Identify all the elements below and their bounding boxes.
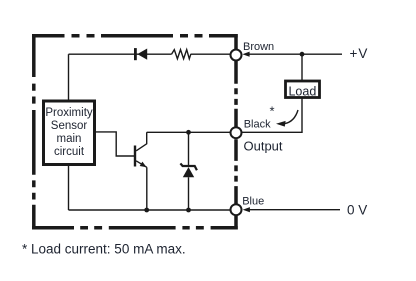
junction dot (zener top) <box>186 130 191 135</box>
wire left riser (box bottom to bottom rail) <box>68 165 70 210</box>
wire load bottom to black terminal <box>242 99 302 133</box>
svg-text:main: main <box>57 133 82 145</box>
wire emitter drop <box>146 167 148 210</box>
transistor Q1 <box>134 132 147 167</box>
svg-text:0 V: 0 V <box>347 202 367 217</box>
wire collector rail <box>147 131 231 133</box>
svg-text:Proximity: Proximity <box>45 107 93 119</box>
diode D1 (reverse polarity protection) <box>134 48 147 60</box>
load box <box>286 81 320 98</box>
enclosure dashed border top <box>32 34 238 38</box>
proximity sensor main circuit box U1 <box>44 101 95 165</box>
svg-text:Load: Load <box>288 84 316 98</box>
node Blue terminal <box>231 204 242 215</box>
curved arrow (load current into output) <box>276 110 298 127</box>
svg-text:+V: +V <box>350 46 369 61</box>
svg-text:* Load current: 50 mA max.: * Load current: 50 mA max. <box>22 242 186 257</box>
svg-text:Blue: Blue <box>242 196 264 208</box>
svg-text:*: * <box>270 104 275 119</box>
enclosure dashed border left <box>32 34 36 230</box>
enclosure dashed border bottom <box>32 226 238 230</box>
junction dot (zener / bottom rail) <box>186 208 191 213</box>
wire load top drop <box>301 54 303 80</box>
wire 0V line with arrowhead <box>249 209 340 211</box>
svg-text:circuit: circuit <box>54 146 85 158</box>
junction dot (emitter / bottom rail) <box>144 208 149 213</box>
svg-text:Brown: Brown <box>243 41 274 53</box>
wire base link (box to transistor base) <box>96 132 134 156</box>
wire top rail <box>69 53 232 55</box>
node Brown terminal <box>231 50 242 61</box>
junction dot (load tap on +V) <box>300 52 305 57</box>
wire bottom rail <box>69 209 232 211</box>
enclosure dashed border right (through terminals) <box>234 34 238 230</box>
node Black terminal <box>231 127 242 138</box>
resistor R1 <box>172 50 191 59</box>
svg-text:Sensor: Sensor <box>51 120 88 132</box>
svg-text:Black: Black <box>244 119 271 131</box>
wire left riser (top rail down to main circuit box) <box>68 54 70 100</box>
zener diode ZD1 <box>180 132 197 210</box>
wire +V line with arrowhead <box>249 53 342 55</box>
svg-text:Output: Output <box>244 139 283 154</box>
